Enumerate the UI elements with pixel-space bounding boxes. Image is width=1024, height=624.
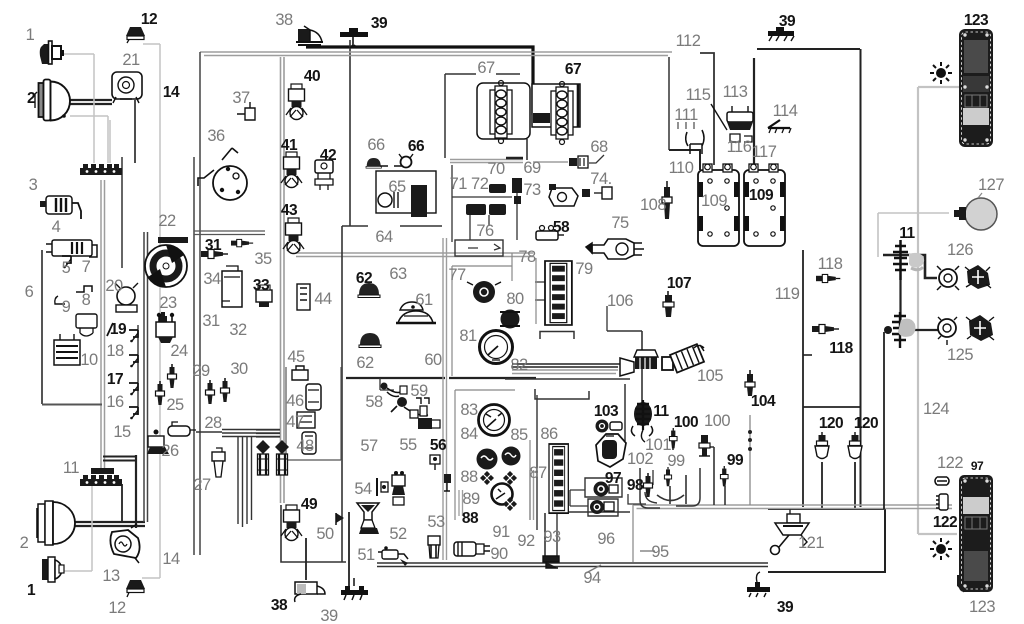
svg-text:86: 86 <box>540 425 558 443</box>
wire gray pair 160 A <box>450 159 523 161</box>
svg-text:69: 69 <box>523 159 541 177</box>
svg-text:59: 59 <box>410 382 428 400</box>
wire box 45 outline <box>286 367 341 460</box>
wire 96 box lower <box>588 499 618 516</box>
svg-text:45: 45 <box>287 348 305 366</box>
svg-text:43: 43 <box>281 202 298 219</box>
plug 107 <box>663 291 674 317</box>
wire 121 hook <box>789 509 791 514</box>
svg-text:71 72: 71 72 <box>450 175 489 193</box>
wire ign 59 wires <box>380 378 394 390</box>
svg-text:32: 32 <box>229 321 247 339</box>
svg-text:112: 112 <box>676 32 701 50</box>
svg-text:107: 107 <box>667 275 691 292</box>
relay 42 <box>315 160 333 190</box>
svg-text:29: 29 <box>192 362 210 380</box>
regulator 67 (right) <box>532 82 580 145</box>
svg-text:70: 70 <box>487 160 505 178</box>
svg-text:30: 30 <box>230 360 248 378</box>
svg-text:111: 111 <box>674 106 698 124</box>
wire 105 loop b <box>607 331 642 403</box>
wire cluster rail 378 <box>346 377 536 379</box>
svg-text:74.: 74. <box>590 170 611 188</box>
svg-text:6: 6 <box>25 283 34 301</box>
svg-text:99: 99 <box>667 452 685 470</box>
svg-text:68: 68 <box>590 138 608 156</box>
svg-text:67: 67 <box>477 59 495 77</box>
svg-text:27: 27 <box>193 476 211 494</box>
svg-text:61: 61 <box>415 291 433 309</box>
wire 99 drops <box>657 475 686 504</box>
wire bundle h C <box>222 436 280 438</box>
svg-text:14: 14 <box>162 550 180 568</box>
wire wire 105 dark pair <box>512 364 620 367</box>
svg-text:55: 55 <box>399 436 417 454</box>
wire ground 39 drop <box>348 512 350 588</box>
svg-text:49: 49 <box>301 496 318 513</box>
oil filter 34 <box>222 266 242 307</box>
lamp 61 (dome small) <box>400 302 423 312</box>
bulb 123 (top) <box>930 62 952 84</box>
svg-text:91: 91 <box>492 523 510 541</box>
svg-text:98: 98 <box>627 477 644 494</box>
wire gray pair 160 B <box>450 162 523 164</box>
svg-text:11: 11 <box>63 459 79 477</box>
wire column drop 20 <box>121 157 123 268</box>
wire bus 64 <box>342 225 442 227</box>
svg-text:4: 4 <box>52 218 61 236</box>
wire box 118 bottom <box>803 406 861 408</box>
svg-text:44: 44 <box>314 290 332 308</box>
svg-text:3: 3 <box>29 176 38 194</box>
headlamp 2 (bottom) <box>37 501 75 545</box>
svg-text:100: 100 <box>704 412 730 430</box>
horn 66 small <box>401 157 412 168</box>
wire harness top B <box>204 55 668 57</box>
fuse 72 <box>489 204 506 215</box>
wiper motor 3 <box>40 196 81 219</box>
wire bundle right of 15 <box>256 430 280 437</box>
backup lamp 127 <box>954 193 997 230</box>
alternator 22 <box>145 237 188 287</box>
cluster frame <box>452 253 536 520</box>
wire 98 loop <box>628 470 653 504</box>
wire bottom inner link <box>557 512 630 563</box>
svg-text:76: 76 <box>476 222 494 240</box>
indicator lamp 88 (disc pair) <box>477 447 521 470</box>
tvs unit 73 <box>549 184 578 206</box>
svg-text:62: 62 <box>356 270 372 287</box>
svg-text:64: 64 <box>375 228 393 246</box>
wire headlamp2b pair <box>70 522 145 526</box>
wire 94 pointer <box>586 565 601 573</box>
valve 28 <box>168 422 196 436</box>
battery 109 (left) <box>698 164 739 246</box>
svg-text:78: 78 <box>518 248 536 266</box>
connector strip (bottom) <box>80 475 122 486</box>
wire 99b stem <box>724 486 726 505</box>
wire riser 342 <box>341 226 343 562</box>
switch 18 <box>129 355 138 367</box>
wire box 31-34 top <box>194 231 265 235</box>
wire gray pair 370 B <box>512 373 616 375</box>
gauge 81 (speedometer) <box>480 331 513 364</box>
wire 105 lower rail <box>505 378 630 380</box>
sender 30a <box>206 380 215 404</box>
svg-text:35: 35 <box>254 250 272 268</box>
svg-text:58: 58 <box>365 393 383 411</box>
parking lamp 1 (top) <box>40 41 64 64</box>
svg-text:24: 24 <box>170 342 188 360</box>
switch 58 gray <box>381 383 408 397</box>
diamond connector c <box>503 497 517 511</box>
svg-text:114: 114 <box>773 102 798 120</box>
sender 25 <box>156 381 165 405</box>
svg-text:47: 47 <box>286 413 304 431</box>
svg-text:9: 9 <box>62 298 71 316</box>
svg-text:123: 123 <box>969 598 995 616</box>
svg-text:50: 50 <box>316 525 334 543</box>
connector 35 <box>231 239 253 246</box>
svg-text:110: 110 <box>669 159 694 177</box>
connector strip (headlamp junction top) <box>80 164 122 175</box>
relay 40 <box>286 84 307 120</box>
horn 80 (dark disc) <box>467 281 501 303</box>
switch 11 (right upper) <box>893 240 924 280</box>
svg-text:127: 127 <box>978 176 1004 194</box>
plug 100 (gray) <box>699 435 710 456</box>
svg-text:62: 62 <box>356 354 374 372</box>
svg-text:117: 117 <box>752 143 777 161</box>
connector 126 b <box>965 265 991 289</box>
wire tail lamp gray trunk <box>918 87 959 534</box>
svg-text:118: 118 <box>829 340 853 357</box>
washer pump 92-93 details <box>543 556 559 568</box>
svg-text:105: 105 <box>697 367 723 385</box>
svg-text:109: 109 <box>701 192 727 210</box>
svg-text:77: 77 <box>448 266 466 284</box>
svg-text:121: 121 <box>798 534 824 552</box>
svg-text:12: 12 <box>108 599 126 617</box>
svg-text:20: 20 <box>105 277 123 295</box>
spark plug 31 (bold) <box>201 250 228 259</box>
svg-text:103: 103 <box>594 403 619 420</box>
wire 98 curve <box>645 492 657 503</box>
horn relay 113 <box>727 106 753 130</box>
svg-text:66: 66 <box>408 138 425 155</box>
svg-text:54: 54 <box>354 480 372 498</box>
svg-text:109: 109 <box>749 187 774 204</box>
connector 126 a <box>937 266 959 290</box>
wire frame left inner <box>193 157 195 555</box>
horn 62 lower <box>359 333 381 348</box>
svg-text:10: 10 <box>80 351 98 369</box>
terminal 110 hooks <box>686 130 704 154</box>
wire frame bottom right box <box>768 509 885 572</box>
switch 11 (right lower) <box>884 312 916 348</box>
svg-text:99: 99 <box>727 452 744 469</box>
svg-text:39: 39 <box>371 15 388 32</box>
wire sensor 118 lead <box>803 354 812 356</box>
wire lamp1b gray <box>62 484 92 571</box>
fuel filter pair <box>256 440 270 475</box>
pump 51 <box>378 546 408 566</box>
svg-text:87: 87 <box>529 464 547 482</box>
lamp socket 122 b <box>936 494 948 510</box>
horn 62 (upper pair b) <box>366 158 381 168</box>
wire bundle h A <box>222 429 280 431</box>
wire cluster links <box>535 282 549 300</box>
wire lamp1 gray <box>64 54 94 163</box>
sensor 118 (gray) <box>816 274 840 282</box>
svg-text:42: 42 <box>320 147 336 164</box>
relay 33 <box>256 285 272 307</box>
wire sender 120 drops <box>822 462 855 509</box>
wire bundle v2 <box>242 437 244 527</box>
svg-text:19: 19 <box>110 321 127 338</box>
valve 26 <box>147 430 169 455</box>
svg-text:2: 2 <box>20 534 29 552</box>
wire 97 link <box>570 490 588 506</box>
svg-text:28: 28 <box>204 414 222 432</box>
bracket 8 <box>76 286 92 292</box>
cylinder 53 <box>428 536 440 558</box>
wire bottom rail B <box>377 566 768 568</box>
svg-text:79: 79 <box>575 260 593 278</box>
wire gray pair 370 A <box>512 369 618 371</box>
wire inner frame x884 <box>883 332 885 509</box>
svg-text:17: 17 <box>107 371 123 388</box>
wire link 69 <box>533 161 568 163</box>
wire headlamp2 pair B <box>68 103 112 105</box>
fuse box 79 <box>545 261 572 325</box>
svg-text:83: 83 <box>460 401 478 419</box>
light switch 105 assembly <box>620 344 704 376</box>
wire bundle v1 <box>237 437 239 524</box>
fuse 73b <box>512 178 522 193</box>
lamp 60 (dome) <box>396 311 436 323</box>
plug 99 small <box>664 467 671 486</box>
spark plug 108 <box>662 181 672 219</box>
wire horn12 gray <box>142 44 160 578</box>
horn 12 (top) <box>126 27 145 43</box>
svg-text:52: 52 <box>389 525 407 543</box>
connector 69 <box>569 156 588 168</box>
wire rail 28 <box>196 431 222 433</box>
gauge 83-84 (combination) <box>479 405 510 436</box>
wire gray pair 92 A <box>529 470 531 520</box>
svg-text:31: 31 <box>202 312 220 330</box>
relay 49 <box>281 505 302 541</box>
wire frame top right <box>757 48 860 50</box>
sender 29 <box>168 364 177 388</box>
pedal switch 56 <box>430 455 440 470</box>
sensor 118 (bold) <box>812 325 839 334</box>
svg-text:12: 12 <box>141 11 157 28</box>
connector 116-117 <box>730 134 752 142</box>
connector 125 b <box>966 315 994 341</box>
starter solenoid 24 <box>156 313 175 343</box>
svg-text:31: 31 <box>205 237 222 254</box>
wire hook wires 95 <box>640 468 700 508</box>
svg-text:8: 8 <box>82 291 91 309</box>
wire 96 box <box>585 478 622 497</box>
wire 105 loop c <box>535 389 589 399</box>
svg-text:116: 116 <box>727 138 752 156</box>
svg-text:95: 95 <box>651 543 669 561</box>
svg-text:92: 92 <box>517 532 535 550</box>
wire main feed bus top <box>306 47 533 115</box>
gauge 89-90 (small) <box>492 484 513 505</box>
wire 93 stem <box>544 513 546 556</box>
wire reg67 frame <box>445 74 520 158</box>
switch column rail <box>137 325 139 415</box>
svg-text:11: 11 <box>899 225 915 242</box>
dimmer switch 75 <box>586 239 644 259</box>
wire box 118 left <box>802 250 804 507</box>
switch 19 <box>129 330 138 342</box>
ground 39 (top) <box>340 28 368 48</box>
wire pair x144 <box>144 232 148 522</box>
diamond connector b <box>503 471 517 485</box>
svg-text:1: 1 <box>26 26 35 44</box>
svg-text:106: 106 <box>607 292 633 310</box>
svg-text:81: 81 <box>459 327 477 345</box>
wire gray pair bottom B <box>637 508 953 510</box>
battery 109 (right, bold) <box>744 164 785 246</box>
svg-text:16: 16 <box>106 393 124 411</box>
wire cluster right edge <box>536 395 538 530</box>
switch 9 <box>55 296 65 304</box>
wire 107 stem <box>667 298 669 317</box>
wire switch 11 stem <box>899 240 901 330</box>
wire cluster left pair <box>443 238 447 560</box>
clamp 37 <box>237 102 255 120</box>
pump 23b <box>156 312 173 331</box>
svg-text:56: 56 <box>430 437 447 454</box>
svg-text:39: 39 <box>320 607 338 624</box>
wire 104 gray line <box>749 415 751 505</box>
headlamp 2 (top) <box>35 80 70 121</box>
sed pump 45 <box>292 366 308 380</box>
svg-text:108: 108 <box>640 196 666 214</box>
svg-text:97: 97 <box>605 470 621 487</box>
wire bus 39 drop <box>349 40 351 226</box>
switch 103 <box>596 420 623 433</box>
wire link 69-68 <box>589 155 604 163</box>
svg-text:38: 38 <box>275 11 293 29</box>
junction 44 <box>297 284 310 310</box>
svg-text:39: 39 <box>777 599 794 616</box>
svg-text:82: 82 <box>510 356 528 374</box>
wire headlamp2b riser <box>121 484 123 522</box>
svg-text:41: 41 <box>281 137 298 154</box>
svg-text:65: 65 <box>388 178 406 196</box>
sender 30b <box>221 378 230 402</box>
svg-text:37: 37 <box>232 89 250 107</box>
svg-text:80: 80 <box>506 290 524 308</box>
wire bundle h B <box>222 432 280 434</box>
svg-text:51: 51 <box>357 546 375 564</box>
svg-text:94: 94 <box>583 569 601 587</box>
svg-text:120: 120 <box>854 415 878 432</box>
fuel pump 23 <box>115 283 138 312</box>
wire gray trunk left pair B <box>283 57 285 503</box>
svg-text:84: 84 <box>460 425 478 443</box>
svg-text:113: 113 <box>723 83 748 101</box>
wire backup lamp gray <box>878 213 949 257</box>
distributor 36 <box>198 148 247 200</box>
svg-text:125: 125 <box>947 346 973 364</box>
motor 96 <box>590 500 614 514</box>
svg-text:14: 14 <box>163 84 180 101</box>
wire wire 106 <box>606 306 608 331</box>
svg-text:21: 21 <box>122 51 140 69</box>
wire frame right edge <box>860 49 862 507</box>
heater motor 90 <box>454 542 490 556</box>
wire frame left outer <box>199 52 201 555</box>
svg-text:58: 58 <box>553 219 570 236</box>
wire left box 5-9 <box>42 250 102 405</box>
sender 27 <box>212 448 225 477</box>
relay 43 <box>283 218 304 254</box>
wire fuse rail <box>452 165 517 242</box>
regulator 67 (left, with cover) <box>477 81 530 144</box>
plug 99 (bold) <box>720 466 728 486</box>
ground 39 (top right) <box>768 27 794 41</box>
switch 16 <box>129 407 138 419</box>
wire bottom gray drop <box>632 505 634 562</box>
svg-text:102: 102 <box>627 450 653 468</box>
svg-text:22: 22 <box>158 212 176 230</box>
wire dark seg 160 <box>506 157 523 160</box>
relay 41 <box>281 152 302 188</box>
svg-text:67: 67 <box>565 61 581 78</box>
wire trunk x136 <box>135 455 137 528</box>
svg-text:36: 36 <box>207 127 225 145</box>
cylinder 54b <box>392 471 405 505</box>
svg-text:15: 15 <box>113 423 131 441</box>
wire bus67 down <box>526 139 528 160</box>
wire gray risers mid <box>101 180 105 472</box>
sender small left <box>444 474 451 491</box>
svg-text:120: 120 <box>819 415 843 432</box>
wire wire 11 to 125 <box>900 329 938 331</box>
svg-text:88: 88 <box>462 510 479 527</box>
svg-text:38: 38 <box>271 597 288 614</box>
svg-text:97: 97 <box>971 459 984 473</box>
wire thick link y458 <box>103 457 136 461</box>
ground strap 114 <box>768 120 791 133</box>
svg-text:11: 11 <box>653 403 669 420</box>
flasher relay 21 <box>112 72 142 103</box>
wire 105 loop a <box>540 332 574 340</box>
svg-text:7: 7 <box>82 258 91 276</box>
ignition switch 59 <box>391 397 440 429</box>
svg-text:60: 60 <box>424 351 442 369</box>
svg-text:26: 26 <box>161 442 179 460</box>
dimmer 38 (bottom) <box>295 582 325 602</box>
svg-text:2: 2 <box>27 90 35 107</box>
wire gray pair 253 A <box>296 252 533 254</box>
diode block 74 <box>582 187 612 199</box>
svg-text:53: 53 <box>427 513 445 531</box>
ignition switch 102 <box>596 434 626 467</box>
funnel valve 52 <box>357 503 379 534</box>
svg-text:13: 13 <box>102 567 120 585</box>
terminals 111 <box>678 122 694 129</box>
box 76 outline <box>455 240 503 256</box>
